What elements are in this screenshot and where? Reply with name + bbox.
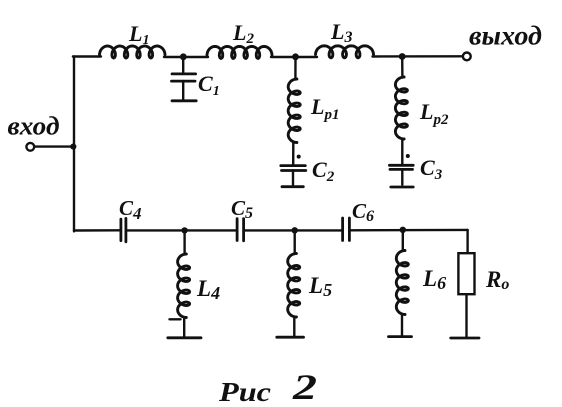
node: L2/L3/Lp1 junction xyxy=(292,53,299,60)
svg-text:L1: L1 xyxy=(128,21,149,48)
inductor L3 xyxy=(316,46,374,58)
ground: under L4 xyxy=(168,336,201,339)
node: C4/C5/L4 junction xyxy=(181,227,187,233)
svg-text:L3: L3 xyxy=(330,19,352,46)
wire: top rail segment 3 xyxy=(271,56,317,58)
inductor Lp1 xyxy=(288,57,300,165)
inductor L6 xyxy=(396,230,408,336)
svg-text:выход: выход xyxy=(469,21,542,51)
node: input junction on left bus xyxy=(70,144,76,150)
node: L1/L2/C1 junction xyxy=(180,53,187,60)
svg-text:L2: L2 xyxy=(232,20,254,47)
wire: bottom rail segment 4 xyxy=(350,229,467,232)
capacitor C2 xyxy=(281,155,306,187)
svg-text:Рис: Рис xyxy=(218,377,271,407)
resistor R0 xyxy=(458,230,474,338)
svg-text:C6: C6 xyxy=(352,199,374,225)
wire: left vertical bus xyxy=(73,57,75,232)
node: L3/Lp2 junction xyxy=(399,53,406,60)
ground: under R0 xyxy=(451,337,479,340)
inductor L1 xyxy=(100,46,166,58)
terminal: output circle xyxy=(463,53,471,61)
wire: bottom rail segment 3 xyxy=(245,229,342,231)
capacitor C6 xyxy=(343,218,350,241)
wire: top rail segment 1 xyxy=(73,55,101,57)
svg-text:Lр2: Lр2 xyxy=(419,99,449,128)
terminal: input circle xyxy=(26,143,34,151)
svg-text:C2: C2 xyxy=(312,157,335,185)
wire: bottom rail segment 1 xyxy=(74,229,120,232)
capacitor C4 xyxy=(121,218,126,241)
ground: under L5 xyxy=(277,336,304,339)
ground: under L6 xyxy=(389,335,412,338)
capacitor C1 xyxy=(172,57,197,101)
svg-text:C3: C3 xyxy=(420,155,443,183)
svg-text:L4: L4 xyxy=(196,276,220,303)
inductor L2 xyxy=(207,46,272,58)
inductor Lp2 xyxy=(395,57,407,166)
capacitor C5 xyxy=(237,219,244,241)
svg-text:Lр1: Lр1 xyxy=(310,94,339,123)
capacitor C3 xyxy=(389,154,413,187)
wire: input lead xyxy=(35,145,73,147)
svg-text:Rо: Rо xyxy=(485,267,509,293)
inductor L5 xyxy=(288,230,300,336)
wire: top rail segment 4 xyxy=(373,55,463,58)
wire: bottom rail segment 2 xyxy=(127,229,236,231)
svg-text:C5: C5 xyxy=(231,196,253,222)
svg-text:L6: L6 xyxy=(422,266,446,293)
node: C5/C6/L5 junction xyxy=(292,227,298,233)
svg-text:C1: C1 xyxy=(198,71,220,99)
node: C6/L6/R0 junction xyxy=(400,227,406,233)
svg-text:C4: C4 xyxy=(119,196,142,223)
svg-text:L5: L5 xyxy=(308,273,332,300)
inductor L4 xyxy=(170,230,190,337)
svg-text:2: 2 xyxy=(292,367,317,407)
svg-text:вход: вход xyxy=(8,112,60,141)
wire: top rail segment 2 xyxy=(164,56,208,58)
